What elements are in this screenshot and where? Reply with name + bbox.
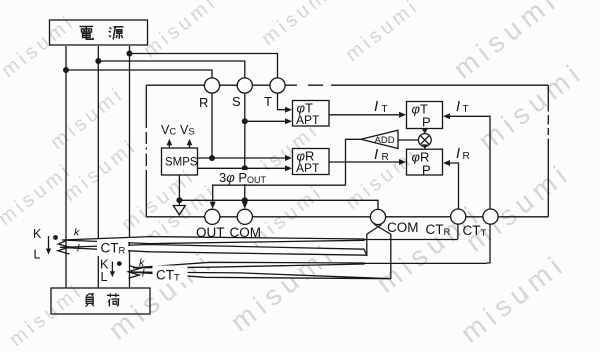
svg-text:COM: COM bbox=[387, 220, 419, 235]
CT R zigzag coil bbox=[58, 241, 70, 254]
svg-text:L: L bbox=[101, 270, 108, 284]
node: T tap bbox=[127, 51, 133, 57]
label iR bbox=[456, 146, 470, 162]
label IT bbox=[374, 98, 388, 115]
svg-text:P: P bbox=[422, 115, 431, 130]
arrow Vs bbox=[187, 139, 193, 146]
wire: S drop long bbox=[244, 93, 246, 200]
multiplier circle bbox=[418, 134, 431, 147]
wire: 3-phase Pout line to OUT bbox=[213, 185, 346, 204]
CT T zigzag coil bbox=[128, 266, 139, 278]
node: ground bbox=[176, 197, 182, 203]
svg-text:I: I bbox=[374, 98, 378, 115]
Vc arrow bbox=[168, 144, 170, 149]
svg-text:P: P bbox=[422, 163, 431, 178]
wire: CTT lead k to CTT terminal bbox=[487, 224, 490, 263]
arrow into COM terminal bbox=[242, 202, 248, 209]
terminal circle CTT bbox=[483, 209, 498, 224]
label K CTT bbox=[100, 258, 109, 272]
phiR APT box bbox=[293, 149, 330, 175]
svg-text:APT: APT bbox=[296, 161, 320, 175]
label R bbox=[199, 95, 208, 110]
label CTR terminal bbox=[426, 222, 451, 238]
wire: SMPS ground drop bbox=[178, 175, 180, 205]
arrow into phiT APT from T bbox=[285, 107, 292, 113]
wire: middle conductor S phase bbox=[97, 46, 99, 288]
instrument enclosure boundary left (dash-dot) bbox=[145, 85, 147, 217]
svg-text:T: T bbox=[264, 94, 272, 109]
arrow into phiR P bbox=[399, 159, 406, 165]
label COM ct bbox=[387, 220, 419, 235]
label l CTT bbox=[142, 268, 145, 280]
CT T secondary lead l bbox=[131, 272, 391, 279]
svg-text:COM: COM bbox=[230, 225, 262, 240]
svg-text:APT: APT bbox=[296, 113, 320, 127]
wire: ADD output down bbox=[346, 139, 362, 185]
phiR P box bbox=[407, 149, 443, 175]
svg-text:I: I bbox=[374, 146, 378, 163]
wire: SMPS/S line into phiR APT lower input bbox=[198, 167, 288, 169]
label IR bbox=[374, 146, 389, 163]
arrow into phiR APT upper bbox=[285, 155, 292, 161]
wire: R tap to terminal R bbox=[66, 70, 212, 78]
terminal circle R bbox=[204, 78, 219, 93]
label OUT bbox=[196, 225, 225, 240]
label 3phi Pout bbox=[217, 170, 272, 185]
label CTR symbol bbox=[97, 240, 128, 257]
K arrow CTT bbox=[111, 262, 113, 274]
svg-text:R: R bbox=[199, 95, 208, 110]
arrow into phiR APT lower bbox=[285, 165, 292, 171]
svg-text:R: R bbox=[463, 151, 470, 162]
svg-text:S: S bbox=[232, 94, 241, 109]
svg-text:I: I bbox=[456, 146, 460, 162]
label phiR APT bbox=[296, 149, 320, 176]
svg-text:ADD: ADD bbox=[375, 135, 395, 146]
kanji 負 bbox=[86, 294, 94, 307]
wire: multiplier to ADD bbox=[398, 139, 419, 141]
terminal circle COM output bbox=[237, 209, 252, 224]
wire: iT from CTT terminal bbox=[447, 116, 490, 209]
CT R secondary lead k bbox=[62, 237, 458, 244]
terminal circle COM ct bbox=[370, 209, 385, 224]
label CTT terminal bbox=[463, 223, 487, 239]
wire: COM right leg crossover bbox=[375, 225, 391, 279]
arrow iT into phiT P bbox=[443, 113, 450, 119]
svg-text:K: K bbox=[33, 227, 42, 241]
power source box 電源 bbox=[50, 20, 148, 45]
label L CTT bbox=[101, 270, 108, 284]
polarity dot CTR bbox=[53, 235, 58, 240]
label l CTR bbox=[77, 243, 80, 255]
polarity dot CTT bbox=[117, 261, 122, 266]
CT T secondary lead k bbox=[133, 262, 487, 268]
instrument enclosure boundary bottom bbox=[146, 216, 548, 218]
arrow K-L CTT bbox=[110, 271, 115, 277]
node: R tap bbox=[63, 67, 69, 73]
label COM output bbox=[230, 225, 262, 240]
instrument enclosure boundary right (dash-dot) bbox=[547, 85, 549, 217]
K arrow CTR bbox=[48, 236, 50, 249]
wire: R drop to SMPS line bbox=[211, 93, 213, 158]
arrow into phiR P top bbox=[422, 144, 428, 149]
label T bbox=[264, 94, 272, 109]
ground triangle bbox=[173, 206, 185, 215]
wire: right conductor T phase bbox=[129, 46, 131, 288]
svg-text:I: I bbox=[456, 99, 460, 115]
wire: phiT P to multiplier bbox=[424, 129, 426, 131]
label k CTT bbox=[139, 257, 145, 269]
label Vc bbox=[161, 123, 176, 138]
arrow into phiT P bbox=[399, 112, 406, 118]
kanji 荷 bbox=[107, 293, 120, 306]
label ADD bbox=[375, 135, 395, 146]
wire: IT line APT to P bbox=[329, 114, 402, 116]
arrow into multiplier top bbox=[422, 129, 428, 134]
wire: S tap to terminal S bbox=[98, 61, 245, 78]
phiT APT box bbox=[293, 101, 330, 127]
wire: common line y200 to COM terminals bbox=[179, 200, 378, 209]
label Vs bbox=[180, 123, 195, 138]
arrow into OUT terminal bbox=[210, 202, 216, 209]
wire: IR line APT to P bbox=[329, 161, 402, 163]
terminal circle CTR bbox=[451, 209, 466, 224]
label SMPS bbox=[165, 157, 198, 169]
wire: CTR lead l up to COM leg bbox=[367, 225, 382, 256]
svg-text:T: T bbox=[463, 104, 469, 115]
terminal circle T bbox=[270, 78, 285, 93]
svg-text:OUT: OUT bbox=[196, 225, 225, 240]
arrowheads bbox=[46, 107, 450, 278]
CT R secondary lead l bbox=[60, 245, 367, 256]
label phiR P bbox=[412, 150, 431, 178]
load box 負荷 bbox=[51, 288, 150, 314]
node: S - phiT APT bbox=[242, 118, 248, 124]
wire: left conductor R phase from 電源 to 負荷 bbox=[65, 46, 67, 288]
wire: S to phiT APT lower input bbox=[245, 120, 288, 122]
junction dots bbox=[53, 51, 248, 267]
label k CTR bbox=[74, 227, 80, 239]
svg-text:SMPS: SMPS bbox=[165, 157, 198, 169]
svg-text:L: L bbox=[34, 248, 41, 262]
kanji 源 bbox=[109, 27, 124, 40]
arrow iR into phiR P bbox=[443, 160, 450, 166]
node: COM arrow tap bbox=[242, 197, 248, 203]
phiT P box bbox=[407, 102, 443, 129]
svg-text:k: k bbox=[74, 227, 80, 239]
node: R - SMPS bbox=[209, 155, 215, 161]
SMPS box bbox=[162, 148, 198, 175]
wire: T drop to phiT APT bbox=[278, 93, 288, 110]
kanji 電 bbox=[80, 27, 94, 40]
wire: SMPS/R line into phiT-APT? no: into phiR APT upper input bbox=[198, 157, 288, 159]
label CTT symbol bbox=[153, 266, 188, 284]
node: S - SMPS bbox=[242, 165, 248, 171]
label L CTR bbox=[34, 248, 41, 262]
node: S tap bbox=[95, 58, 101, 64]
arrow into phiT APT from S bbox=[285, 118, 292, 124]
wire: multiplier to phiR P bbox=[424, 145, 426, 148]
label K CTR bbox=[33, 227, 42, 241]
wire: CTR lead k to CTR terminal bbox=[457, 224, 459, 239]
arrow K-L CTR bbox=[46, 249, 51, 255]
terminal circle OUT bbox=[205, 209, 220, 224]
label phiT P bbox=[412, 102, 431, 130]
arrow Vc bbox=[167, 139, 173, 146]
svg-text:R: R bbox=[382, 152, 389, 163]
label phiT APT bbox=[296, 101, 320, 128]
terminal circle S bbox=[237, 78, 252, 93]
instrument enclosure boundary top bbox=[146, 84, 548, 86]
label S bbox=[232, 94, 241, 109]
wire: T tap to terminal T bbox=[130, 54, 278, 78]
label iT bbox=[456, 99, 469, 115]
Vs arrow bbox=[189, 144, 191, 149]
svg-text:T: T bbox=[382, 104, 388, 115]
ADD triangle bbox=[361, 130, 398, 148]
wire: iR from CTR terminal bbox=[447, 163, 459, 209]
